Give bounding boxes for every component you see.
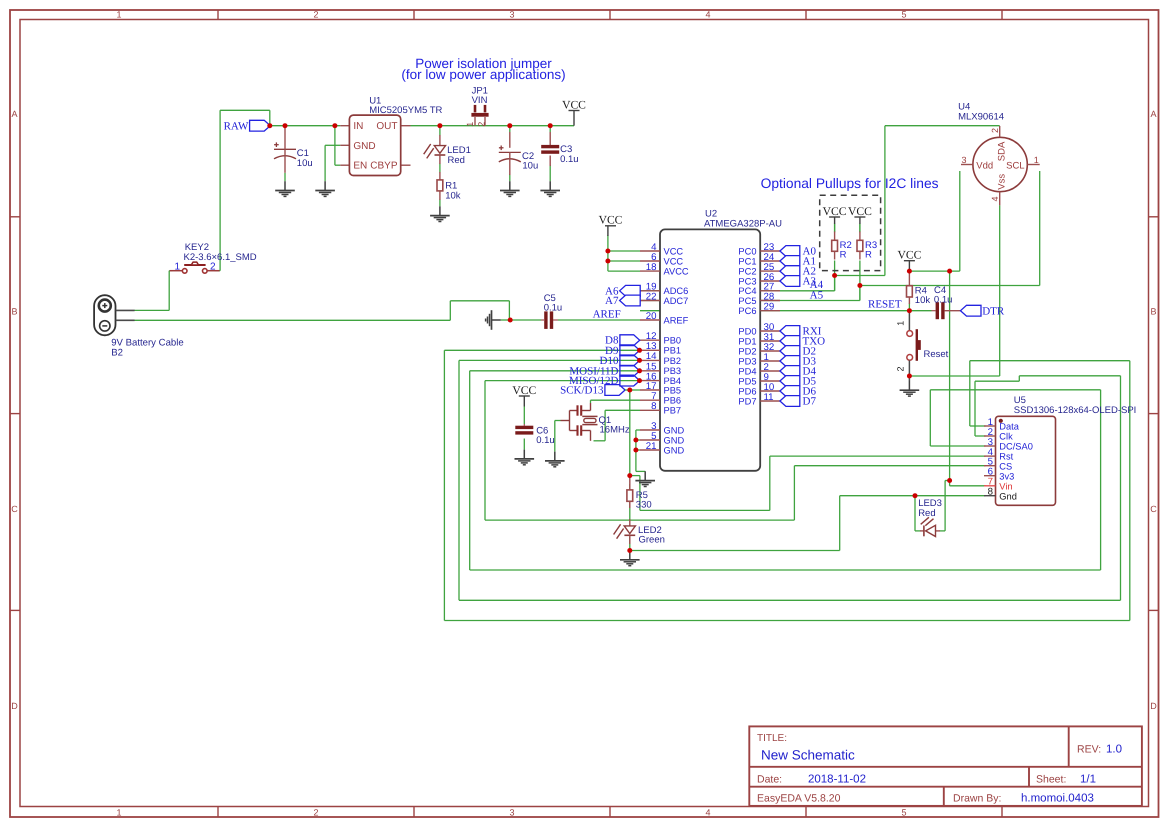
svg-text:A5: A5	[810, 290, 824, 302]
U2 pin 1 PD3	[738, 352, 780, 367]
VCC power flag	[823, 205, 847, 218]
svg-text:2: 2	[210, 261, 216, 272]
svg-text:1: 1	[174, 261, 180, 272]
svg-text:PD1: PD1	[738, 336, 756, 346]
ic U2 ATMEGA328P-AU	[660, 209, 782, 471]
svg-text:PC6: PC6	[738, 306, 756, 316]
svg-text:C: C	[11, 504, 18, 514]
svg-text:D7: D7	[803, 396, 817, 408]
svg-text:10k: 10k	[445, 190, 461, 201]
U2 pin 19 ADC6	[640, 282, 688, 297]
wire VCC to C6	[523, 407, 525, 425]
svg-text:CBYP: CBYP	[370, 161, 398, 172]
U2 pin 11 PD7	[738, 392, 780, 407]
svg-text:4: 4	[990, 196, 1000, 201]
capacitor C3	[549, 132, 551, 146]
resistor R3 body	[857, 240, 863, 251]
wire Vin jog to LED3	[945, 480, 950, 482]
svg-text:Red: Red	[448, 155, 465, 166]
U2 pin 14 PB2	[640, 351, 681, 366]
svg-text:SCL: SCL	[1006, 160, 1024, 171]
wire MISO loop to OLED CS	[485, 519, 794, 521]
regulator U1 MIC5205	[340, 96, 442, 176]
display U5 SSD1306 OLED	[996, 395, 1137, 505]
svg-text:0.1u: 0.1u	[544, 303, 563, 314]
ground U1	[315, 181, 335, 196]
svg-text:1/1: 1/1	[1080, 774, 1096, 786]
svg-text:4: 4	[705, 808, 710, 818]
wire U1 EN connection	[334, 126, 336, 166]
svg-text:PD4: PD4	[738, 366, 756, 376]
U2 pin 9 PD5	[738, 372, 780, 387]
svg-text:11: 11	[764, 392, 774, 403]
wire C3 to ground	[549, 126, 551, 132]
svg-text:D: D	[1150, 701, 1157, 711]
wire A5 SCL net	[640, 300, 860, 302]
svg-text:10u: 10u	[297, 158, 313, 169]
wire U1 GND to ground	[325, 144, 340, 146]
U2 pin 16 PB4	[640, 371, 681, 386]
U2 pin 18 AVCC	[640, 262, 689, 277]
svg-text:RAW: RAW	[224, 121, 249, 133]
text power isolation jumper note	[401, 56, 565, 82]
svg-text:PD3: PD3	[738, 356, 756, 366]
svg-text:Data: Data	[999, 422, 1019, 432]
ground AREF sideways	[486, 310, 501, 330]
svg-text:2: 2	[313, 10, 318, 20]
wire PB4 bus MISO	[485, 380, 640, 382]
wire LED1 R1 chain	[439, 126, 441, 136]
LED3 symbol	[921, 517, 936, 536]
svg-text:PB0: PB0	[664, 336, 682, 346]
net flag D4	[780, 366, 817, 378]
wire MOSI big loop	[470, 569, 1101, 571]
svg-text:AVCC: AVCC	[664, 267, 689, 277]
U2 pin 6 VCC	[640, 252, 683, 267]
svg-text:VCC: VCC	[897, 249, 921, 262]
svg-text:CS: CS	[999, 461, 1012, 471]
svg-text:3: 3	[509, 10, 514, 20]
svg-text:3: 3	[961, 155, 966, 165]
switch KEY2	[170, 242, 257, 273]
svg-text:PB3: PB3	[664, 366, 682, 376]
svg-text:VCC: VCC	[599, 214, 623, 227]
resistor R1 body	[437, 180, 443, 191]
svg-text:PD6: PD6	[738, 386, 756, 396]
svg-text:2: 2	[313, 808, 318, 818]
svg-text:5: 5	[901, 808, 906, 818]
svg-text:GND: GND	[353, 141, 375, 152]
svg-text:PC0: PC0	[738, 246, 756, 256]
U2 pin 24 PC1	[738, 252, 780, 267]
capacitor C5	[544, 293, 563, 329]
svg-text:VCC: VCC	[848, 205, 872, 218]
svg-text:PD2: PD2	[738, 346, 756, 356]
ground C6	[515, 450, 535, 465]
U2 pin 28 PC5	[738, 291, 780, 306]
capacitor C1 symbol	[274, 142, 296, 158]
resistor R2 body	[832, 240, 838, 251]
svg-text:ADC6: ADC6	[664, 286, 689, 296]
svg-text:C: C	[1150, 504, 1157, 514]
svg-text:A7: A7	[605, 295, 619, 307]
svg-text:VCC: VCC	[664, 256, 684, 266]
svg-text:SCK/D13: SCK/D13	[560, 385, 604, 397]
resistor R2	[834, 224, 836, 232]
U2 pin 25 PC2	[738, 262, 780, 277]
svg-text:ADC7: ADC7	[664, 296, 689, 306]
wire C1 to ground	[284, 173, 286, 181]
wire PB7 to crystal	[605, 409, 640, 411]
svg-text:Drawn By:: Drawn By:	[953, 793, 1001, 805]
net flag A6	[605, 285, 640, 297]
VCC power flag	[512, 384, 536, 397]
wire D9 big loop to OLED Data	[444, 620, 1129, 622]
battery connector B2	[94, 295, 184, 358]
svg-text:Optional Pullups for I2C lines: Optional Pullups for I2C lines	[761, 176, 939, 191]
wire SCK jog to OLED Rst line	[630, 475, 640, 477]
wire PB3 bus MOSI	[470, 370, 640, 372]
svg-text:Red: Red	[918, 508, 935, 519]
svg-text:A: A	[11, 109, 17, 119]
svg-text:14: 14	[646, 351, 657, 362]
svg-text:VCC: VCC	[512, 384, 536, 397]
svg-text:Vss: Vss	[996, 174, 1007, 190]
U2 pin 26 PC3	[738, 272, 780, 287]
svg-text:PC2: PC2	[738, 267, 756, 277]
net flag D9	[605, 345, 640, 357]
net flag D8	[605, 335, 640, 347]
svg-text:R: R	[865, 250, 872, 261]
svg-text:1: 1	[465, 122, 475, 127]
svg-text:GND: GND	[664, 435, 685, 445]
wire battery minus long run to AREF	[134, 319, 450, 321]
svg-text:SSD1306-128x64-OLED-SPI: SSD1306-128x64-OLED-SPI	[1014, 405, 1137, 416]
wire LED3 cathode to Gnd net	[914, 496, 916, 531]
svg-text:Clk: Clk	[999, 432, 1013, 442]
LED2 symbol	[614, 524, 636, 538]
VCC power flag	[897, 249, 921, 262]
U2 pin 15 PB3	[640, 362, 681, 377]
wire R2 bottom to SDA vertical	[834, 261, 836, 291]
wire PB2 bus D10	[459, 359, 640, 361]
svg-text:0.1u: 0.1u	[934, 295, 953, 306]
net flag D7	[780, 396, 817, 408]
wire A4 SDA net	[640, 290, 835, 292]
U2 pin 7 PB6	[640, 391, 681, 406]
svg-text:2018-11-02: 2018-11-02	[808, 774, 866, 786]
svg-text:B: B	[1150, 307, 1156, 317]
svg-text:MLX90614: MLX90614	[958, 111, 1004, 122]
svg-text:RESET: RESET	[868, 299, 902, 311]
svg-text:TITLE:: TITLE:	[757, 733, 787, 744]
U5 pin 1 Data	[984, 417, 1020, 432]
U5 pin 4 Rst	[984, 447, 1014, 462]
resistor R4	[908, 271, 910, 286]
svg-text:Reset: Reset	[924, 349, 949, 360]
svg-text:22: 22	[646, 291, 657, 302]
svg-text:1.0: 1.0	[1106, 744, 1122, 756]
svg-text:PD5: PD5	[738, 376, 756, 386]
svg-text:B: B	[11, 307, 17, 317]
svg-text:AREF: AREF	[664, 315, 689, 325]
U5 pin 3 DC/SA0	[984, 437, 1033, 452]
svg-text:PD0: PD0	[738, 326, 756, 336]
svg-text:PB5: PB5	[664, 385, 682, 395]
svg-text:Gnd: Gnd	[999, 491, 1017, 501]
svg-text:16MHz: 16MHz	[600, 425, 630, 436]
svg-text:VCC: VCC	[823, 205, 847, 218]
U2 pin 10 PD6	[738, 382, 780, 397]
svg-text:h.momoi.0403: h.momoi.0403	[1021, 793, 1094, 805]
svg-text:3: 3	[509, 808, 514, 818]
svg-text:VIN: VIN	[472, 95, 488, 106]
wire SCK junction to R5 LED2	[629, 484, 631, 491]
ground Reset	[900, 381, 920, 396]
svg-text:(for low power applications): (for low power applications)	[401, 67, 565, 82]
net flag SCK/D13	[560, 385, 625, 397]
svg-text:PB6: PB6	[664, 396, 682, 406]
wire VCC down to OLED Vin	[949, 271, 951, 480]
svg-text:5: 5	[901, 10, 906, 20]
ground C3	[540, 181, 560, 196]
svg-text:3v3: 3v3	[999, 471, 1014, 481]
resistor R1	[439, 180, 441, 200]
net flag D10	[600, 355, 640, 367]
svg-text:Date:: Date:	[757, 774, 782, 786]
U5 pin 6 3v3	[984, 467, 1014, 482]
resistor R5 body	[627, 490, 633, 501]
svg-text:New Schematic: New Schematic	[761, 748, 855, 763]
svg-text:8: 8	[651, 401, 656, 412]
svg-text:GND: GND	[664, 445, 685, 455]
net flag D6	[780, 386, 817, 398]
svg-text:21: 21	[646, 441, 657, 452]
jumper JP1	[465, 85, 488, 127]
ground LED2	[620, 551, 640, 566]
VCC power flag	[848, 205, 872, 218]
svg-text:20: 20	[646, 311, 657, 322]
crystal Q1 16MHz	[561, 403, 630, 441]
svg-text:A: A	[1150, 109, 1156, 119]
svg-text:Rst: Rst	[999, 452, 1013, 462]
svg-text:10u: 10u	[522, 161, 538, 172]
capacitor C4	[934, 285, 953, 319]
resistor R4 body	[907, 286, 913, 297]
net flag DTR	[961, 305, 1005, 317]
net flag A0	[780, 246, 817, 258]
svg-text:AREF: AREF	[593, 308, 621, 320]
wire PB5 SCK down	[629, 390, 631, 476]
net flag D3	[780, 356, 817, 368]
wire U2 VCC rail pins 4 6 AVCC	[607, 235, 609, 271]
U2 pin 4 VCC	[640, 242, 683, 257]
svg-text:1: 1	[116, 808, 121, 818]
svg-text:EasyEDA V5.8.20: EasyEDA V5.8.20	[757, 793, 841, 805]
LED LED1	[439, 135, 441, 146]
capacitor C2 symbol	[499, 146, 521, 162]
svg-text:PC1: PC1	[738, 256, 756, 266]
svg-text:330: 330	[636, 499, 652, 510]
net flag TXO	[780, 336, 825, 348]
wire U2 GND pins hook	[636, 429, 640, 431]
U2 pin 30 PD0	[738, 322, 780, 337]
ground R1	[430, 206, 450, 221]
capacitor C6 symbol	[515, 426, 533, 435]
wire VCC to R4 and MLX Vdd	[908, 304, 910, 311]
wire AREF through C5 to pin 20	[510, 319, 541, 321]
U2 pin 17 PB5	[640, 381, 681, 396]
ground U2 GND pins	[635, 471, 655, 486]
svg-text:B2: B2	[111, 347, 123, 358]
svg-text:10k: 10k	[915, 295, 931, 306]
wire PB6 to crystal	[591, 399, 641, 401]
U5 pin 8 Gnd	[984, 487, 1017, 502]
svg-text:D: D	[11, 701, 18, 711]
U2 pin 13 PB1	[640, 341, 681, 356]
svg-text:PB7: PB7	[664, 406, 682, 416]
sensor U4 MLX90614	[958, 102, 1040, 206]
svg-text:2: 2	[896, 366, 906, 371]
U2 pin 3 GND	[640, 421, 684, 436]
U2 pin 29 PC6	[738, 302, 780, 317]
U5 pin 2 Clk	[984, 427, 1013, 442]
capacitor C2	[509, 132, 511, 148]
wire C2 to ground	[509, 126, 511, 132]
svg-text:1: 1	[116, 10, 121, 20]
ground C2	[500, 181, 520, 196]
wire R2 R3 tops	[834, 224, 836, 233]
svg-text:0.1u: 0.1u	[560, 154, 579, 165]
net flag RAW	[224, 120, 271, 132]
svg-text:ATMEGA328P-AU: ATMEGA328P-AU	[704, 219, 782, 230]
net flag RXI	[780, 326, 822, 338]
svg-text:Vin: Vin	[999, 481, 1012, 491]
svg-text:VCC: VCC	[664, 246, 684, 256]
svg-text:29: 29	[764, 302, 775, 313]
svg-text:Vdd: Vdd	[976, 160, 993, 171]
U2 pin 31 PD1	[738, 332, 780, 347]
svg-text:PB1: PB1	[664, 346, 682, 356]
dashed box optional pullups	[820, 195, 881, 270]
U2 pin 2 PD4	[738, 362, 780, 377]
svg-text:18: 18	[646, 262, 657, 273]
wire PB1 bus D9	[444, 349, 640, 351]
U2 pin 21 GND	[640, 441, 684, 456]
svg-text:SDA: SDA	[996, 141, 1007, 161]
svg-text:4: 4	[705, 10, 710, 20]
net flag A1	[780, 256, 816, 268]
wire MLX SDA top	[885, 125, 1000, 127]
wire U1 OUT rail to VCC	[411, 125, 575, 127]
wire SCK tag to pin	[625, 389, 640, 391]
wire LED2 anode to OLED Gnd net	[630, 550, 840, 552]
U2 pin 32 PD2	[738, 342, 780, 357]
svg-text:PC4: PC4	[738, 286, 756, 296]
svg-text:PC3: PC3	[738, 276, 756, 286]
wire crystal left pin to ground	[555, 420, 561, 422]
VCC power flag	[599, 214, 623, 227]
U2 pin 8 PB7	[640, 401, 681, 416]
U2 pin 5 GND	[640, 431, 684, 446]
net flag A7	[605, 295, 640, 307]
svg-text:EN: EN	[353, 161, 367, 172]
svg-text:OUT: OUT	[376, 121, 397, 132]
svg-text:VCC: VCC	[562, 98, 586, 111]
svg-text:8: 8	[988, 487, 993, 498]
net flag D5	[780, 376, 817, 388]
wire KEY2 pin2 up and over RAW flag	[215, 270, 221, 272]
svg-text:GND: GND	[664, 425, 685, 435]
svg-text:REV:: REV:	[1077, 744, 1101, 756]
svg-text:PC5: PC5	[738, 296, 756, 306]
wire main 5V rail RAW to U1 IN	[270, 125, 341, 127]
svg-text:2: 2	[476, 122, 486, 127]
net flag MOSI/11D	[569, 365, 639, 377]
svg-text:IN: IN	[353, 121, 363, 132]
VCC power flag	[562, 98, 586, 111]
svg-text:PD7: PD7	[738, 396, 756, 406]
wire Reset switch pin2 to MLX Vss	[909, 375, 999, 377]
wire battery plus to KEY2	[134, 309, 169, 311]
LED1 symbol	[424, 144, 446, 158]
net flag A3	[780, 276, 817, 288]
U2 pin 20 AREF	[640, 311, 689, 326]
U5 pin 7 Vin	[984, 477, 1013, 492]
net flag A2	[780, 266, 816, 278]
ground C1	[275, 181, 295, 196]
wire R3 bottom to SCL line	[859, 261, 861, 301]
ground Q1	[545, 452, 565, 467]
svg-text:0.1u: 0.1u	[536, 435, 555, 446]
wire D10 big loop to OLED Clk	[459, 599, 1121, 601]
svg-text:PB2: PB2	[664, 356, 682, 366]
switch Reset	[896, 311, 949, 376]
svg-text:1: 1	[896, 321, 906, 326]
svg-text:Green: Green	[639, 534, 665, 545]
U2 pin 27 PC4	[738, 282, 780, 297]
resistor R3	[859, 224, 861, 232]
svg-text:DTR: DTR	[982, 306, 1005, 318]
U5 pin 5 CS	[984, 457, 1012, 472]
wire RESET net pin29	[640, 310, 932, 312]
svg-text:R: R	[840, 250, 847, 261]
net flag D2	[780, 346, 816, 358]
title block	[749, 726, 1142, 806]
capacitor C1	[284, 126, 286, 149]
U2 pin 22 ADC7	[640, 291, 688, 306]
svg-text:2: 2	[990, 128, 1000, 133]
capacitor C3 symbol	[541, 145, 559, 154]
U2 pin 23 PC0	[738, 242, 780, 257]
svg-text:DC/SA0: DC/SA0	[999, 442, 1033, 452]
U2 pin 12 PB0	[640, 331, 681, 346]
net flag MISO/12D	[569, 375, 640, 387]
LED LED2	[629, 519, 631, 526]
svg-text:1: 1	[1034, 155, 1039, 165]
svg-text:Sheet:: Sheet:	[1036, 774, 1066, 786]
